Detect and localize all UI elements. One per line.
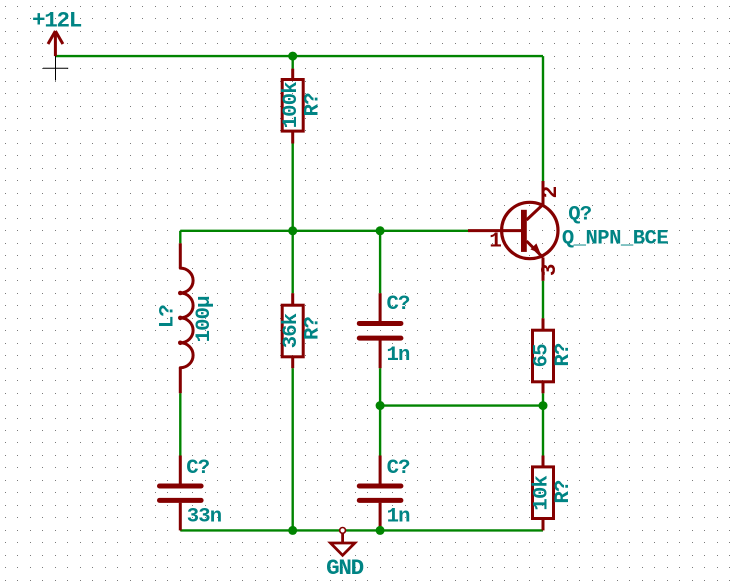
svg-text:100µ: 100µ: [193, 296, 216, 343]
cursor crosshair: [43, 56, 68, 81]
svg-text:R?: R?: [552, 480, 575, 504]
value label 36k: [280, 313, 303, 348]
pin number 2: [540, 186, 563, 199]
ref label L?: [157, 305, 180, 329]
value label Q_NPN_BCE: [562, 228, 668, 251]
ref label R? (R2): [302, 317, 325, 341]
junction bottom C3: [376, 526, 385, 535]
value label 100k: [280, 82, 303, 129]
wire emitter to R3: [542, 281, 544, 319]
value label 10k: [531, 476, 554, 511]
capacitor C? 1n (bottom): [359, 456, 401, 531]
junction mid C1: [376, 226, 385, 235]
junction node R3 bottom: [539, 401, 548, 410]
svg-text:Q_NPN_BCE: Q_NPN_BCE: [562, 228, 668, 251]
capacitor C? 1n (mid): [359, 293, 401, 368]
resistor R? 100k: [282, 69, 303, 144]
wire node to emitter divider: [380, 404, 543, 406]
junction mid R2: [288, 226, 297, 235]
ref label R? (R4): [552, 480, 575, 504]
wire R2 top: [292, 231, 294, 293]
svg-text:3: 3: [539, 263, 562, 276]
wire bottom rail: [180, 529, 543, 531]
net label GND: [326, 555, 364, 581]
pin number 1: [489, 231, 502, 254]
value label 1n (C3): [387, 506, 411, 529]
svg-text:Q?: Q?: [568, 204, 592, 227]
svg-text:R?: R?: [302, 93, 325, 117]
svg-text:C?: C?: [387, 457, 411, 480]
value label 33n: [187, 505, 222, 528]
wire R1 top: [292, 56, 294, 69]
svg-text:100k: 100k: [280, 82, 303, 129]
ref label C? (C2): [186, 457, 210, 480]
wire inductor to C2: [179, 393, 181, 455]
svg-text:R?: R?: [302, 317, 325, 341]
value label 100u: [193, 296, 216, 343]
svg-text:R?: R?: [552, 343, 575, 367]
svg-text:10k: 10k: [531, 476, 554, 511]
capacitor C? 33n (left): [160, 456, 202, 531]
svg-text:1n: 1n: [386, 344, 410, 367]
ref label Q?: [568, 204, 592, 227]
transistor Q? Q_NPN_BCE: [468, 181, 558, 281]
junction node C1 bottom: [376, 401, 385, 410]
svg-text:C?: C?: [386, 293, 410, 316]
svg-text:36k: 36k: [280, 313, 303, 348]
wire R1 bottom to mid rail: [292, 144, 294, 231]
wire R2 bottom: [292, 368, 294, 530]
resistor R? 36k: [282, 293, 303, 368]
svg-text:C?: C?: [186, 457, 210, 480]
inductor L? 100u: [178, 243, 193, 393]
ref label C? (C1): [386, 293, 410, 316]
wire collector drop: [542, 56, 544, 181]
svg-text:1: 1: [489, 231, 502, 254]
resistor R? 65: [533, 318, 554, 393]
svg-text:65: 65: [531, 344, 554, 368]
junction bottom R2: [288, 526, 297, 535]
svg-text:2: 2: [540, 186, 563, 199]
wire C1 bottom to node: [379, 368, 381, 455]
wire top rail: [55, 55, 543, 57]
ref label R? (R3): [552, 343, 575, 367]
svg-text:+12L: +12L: [32, 7, 82, 33]
svg-text:L?: L?: [157, 305, 180, 329]
ref label C? (C3): [387, 457, 411, 480]
junction top R1: [288, 52, 297, 61]
wire inductor top: [179, 231, 181, 244]
pin number 3: [539, 263, 562, 276]
value label 1n (C1): [386, 344, 410, 367]
resistor R? 10k: [533, 456, 554, 531]
svg-text:GND: GND: [326, 555, 364, 581]
net label +12L: [32, 7, 82, 33]
power symbol +12L: [48, 31, 63, 56]
ref label R? (R1): [302, 93, 325, 117]
svg-text:1n: 1n: [387, 506, 411, 529]
wire mid rail: [180, 230, 468, 232]
wire C1 top: [379, 231, 381, 293]
svg-text:33n: 33n: [187, 505, 222, 528]
value label 65: [531, 344, 554, 368]
wire R3 to R4: [542, 393, 544, 455]
ground symbol GND: [331, 528, 355, 556]
